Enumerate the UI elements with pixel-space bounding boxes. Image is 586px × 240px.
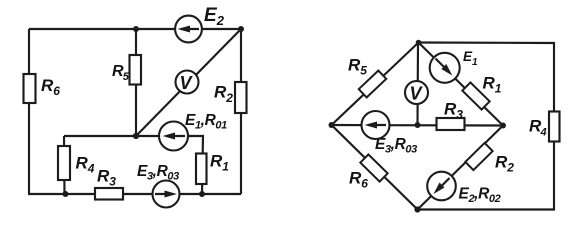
wire: right circuit B-R diagonal — [418, 126, 504, 210]
node: left circuit R1 bottom junction — [199, 191, 205, 197]
svg-text:V: V — [180, 73, 194, 93]
svg-text:V: V — [410, 84, 424, 104]
resistor R4 — [58, 146, 95, 180]
resistor R5 (right circuit) — [348, 56, 386, 98]
svg-text:R2: R2 — [495, 153, 514, 175]
resistor R3 — [95, 167, 123, 200]
source E3,R03 — [137, 163, 180, 208]
node: right circuit center junction — [415, 122, 421, 128]
resistor R1 — [196, 152, 229, 185]
resistor R6 (right circuit) — [349, 154, 388, 190]
node: left circuit center junction — [133, 133, 139, 139]
svg-text:E2,R02: E2,R02 — [459, 186, 501, 206]
wire: left circuit top side — [29, 28, 241, 30]
wire: left circuit left side — [28, 29, 30, 194]
svg-text:R3: R3 — [444, 100, 463, 122]
wire: diagonal from top-right node to center node — [136, 29, 241, 136]
svg-text:R4: R4 — [76, 154, 95, 176]
resistor R6 — [24, 74, 61, 103]
source E2,R02 (right circuit) — [427, 172, 500, 205]
wire: right circuit outer loop with R4 — [418, 43, 555, 210]
voltmeter V (left) — [176, 71, 199, 94]
node: left circuit R4 bottom junction — [63, 191, 69, 197]
node: left circuit top junction — [133, 26, 139, 32]
wire: R4 branch vertical — [63, 136, 66, 194]
resistor R1 (right circuit) — [462, 74, 501, 110]
svg-text:R1: R1 — [210, 152, 229, 174]
svg-text:E1: E1 — [463, 49, 478, 68]
wire: right circuit T-R diagonal — [419, 43, 504, 126]
svg-text:E3,R03: E3,R03 — [137, 163, 179, 183]
svg-text:E1,R01: E1,R01 — [185, 112, 227, 132]
source E1 (right circuit) — [430, 49, 478, 83]
svg-text:R4: R4 — [529, 117, 546, 139]
node: right circuit right vertex — [500, 123, 506, 129]
resistor R4 (right circuit) — [529, 112, 560, 142]
wire: right circuit L-T diagonal — [332, 43, 419, 126]
wire: right circuit middle horizontal — [332, 124, 504, 127]
resistor R2 — [214, 82, 247, 113]
svg-text:R5: R5 — [112, 63, 130, 83]
wire: R5 branch vertical — [135, 29, 137, 136]
wire: left circuit right side — [240, 29, 242, 194]
svg-text:R5: R5 — [348, 56, 367, 78]
svg-text:E2: E2 — [204, 5, 225, 28]
svg-text:R2: R2 — [214, 83, 233, 106]
source E3,R03 (right circuit) — [362, 111, 418, 156]
svg-text:R1: R1 — [483, 74, 502, 96]
wire: left circuit bottom side — [28, 193, 241, 195]
svg-text:R6: R6 — [41, 76, 60, 98]
source E2 — [175, 5, 225, 42]
wire: right circuit T-C vertical — [416, 43, 419, 126]
voltmeter V (right circuit) — [405, 81, 428, 104]
node: right circuit top vertex — [416, 40, 422, 46]
source E1,R01 — [159, 112, 227, 151]
svg-text:E3,R03: E3,R03 — [375, 136, 417, 156]
svg-text:R6: R6 — [349, 169, 368, 191]
node: right circuit left vertex — [329, 122, 335, 128]
resistor R3 (right circuit) — [437, 100, 465, 131]
wire: right circuit L-B diagonal — [332, 125, 418, 210]
svg-text:R3: R3 — [97, 167, 116, 189]
resistor R2 (right circuit) — [465, 143, 514, 175]
node: left circuit top-right junction — [238, 26, 244, 32]
node: right circuit bottom vertex — [414, 206, 420, 212]
wire: middle horizontal through E1 — [64, 136, 203, 194]
resistor R5 — [112, 55, 141, 85]
